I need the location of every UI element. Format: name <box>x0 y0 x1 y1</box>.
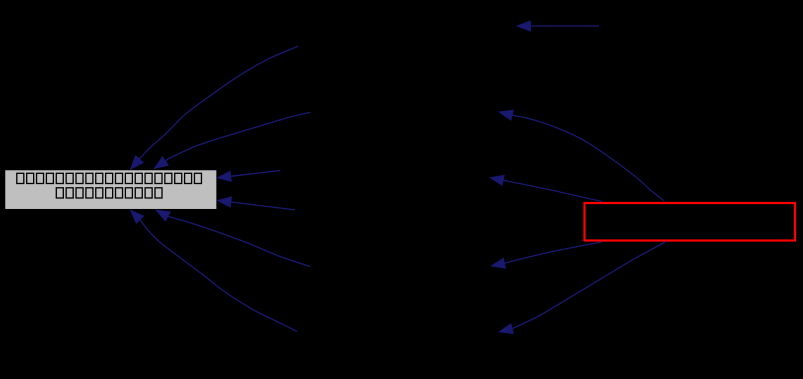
edge: caller 6 -> current function (into bottom edge, left) <box>130 210 297 331</box>
edge: hidden node -> hidden node (top horizontal arrow) <box>517 21 599 31</box>
edge: caller 3 -> current function (into right edge, upper) <box>217 171 280 182</box>
edge: red truncated node -> hidden node (upper straight) <box>490 175 602 201</box>
grey node label row 2: 11 missing-glyph boxes <box>56 188 162 198</box>
node: current function (grey filled box, left) <box>5 170 217 210</box>
edge: caller 4 -> current function (into right edge, lower) <box>218 197 296 210</box>
edge: caller 2 -> current function (into top edge, right) <box>154 112 310 168</box>
edge: red truncated node -> hidden node (lower curve) <box>499 242 665 334</box>
edge: caller 5 -> current function (into bottom edge, right) <box>156 210 310 267</box>
edge: red truncated node -> hidden node (lower straight) <box>491 242 601 268</box>
node: truncated caller (red outlined box, right) <box>585 203 796 241</box>
edge: caller 1 -> current function (into top edge, left) <box>131 46 298 169</box>
grey node label row 1: 19 missing-glyph boxes <box>17 173 202 183</box>
edge: red truncated node -> hidden node (upper curve) <box>499 110 664 201</box>
